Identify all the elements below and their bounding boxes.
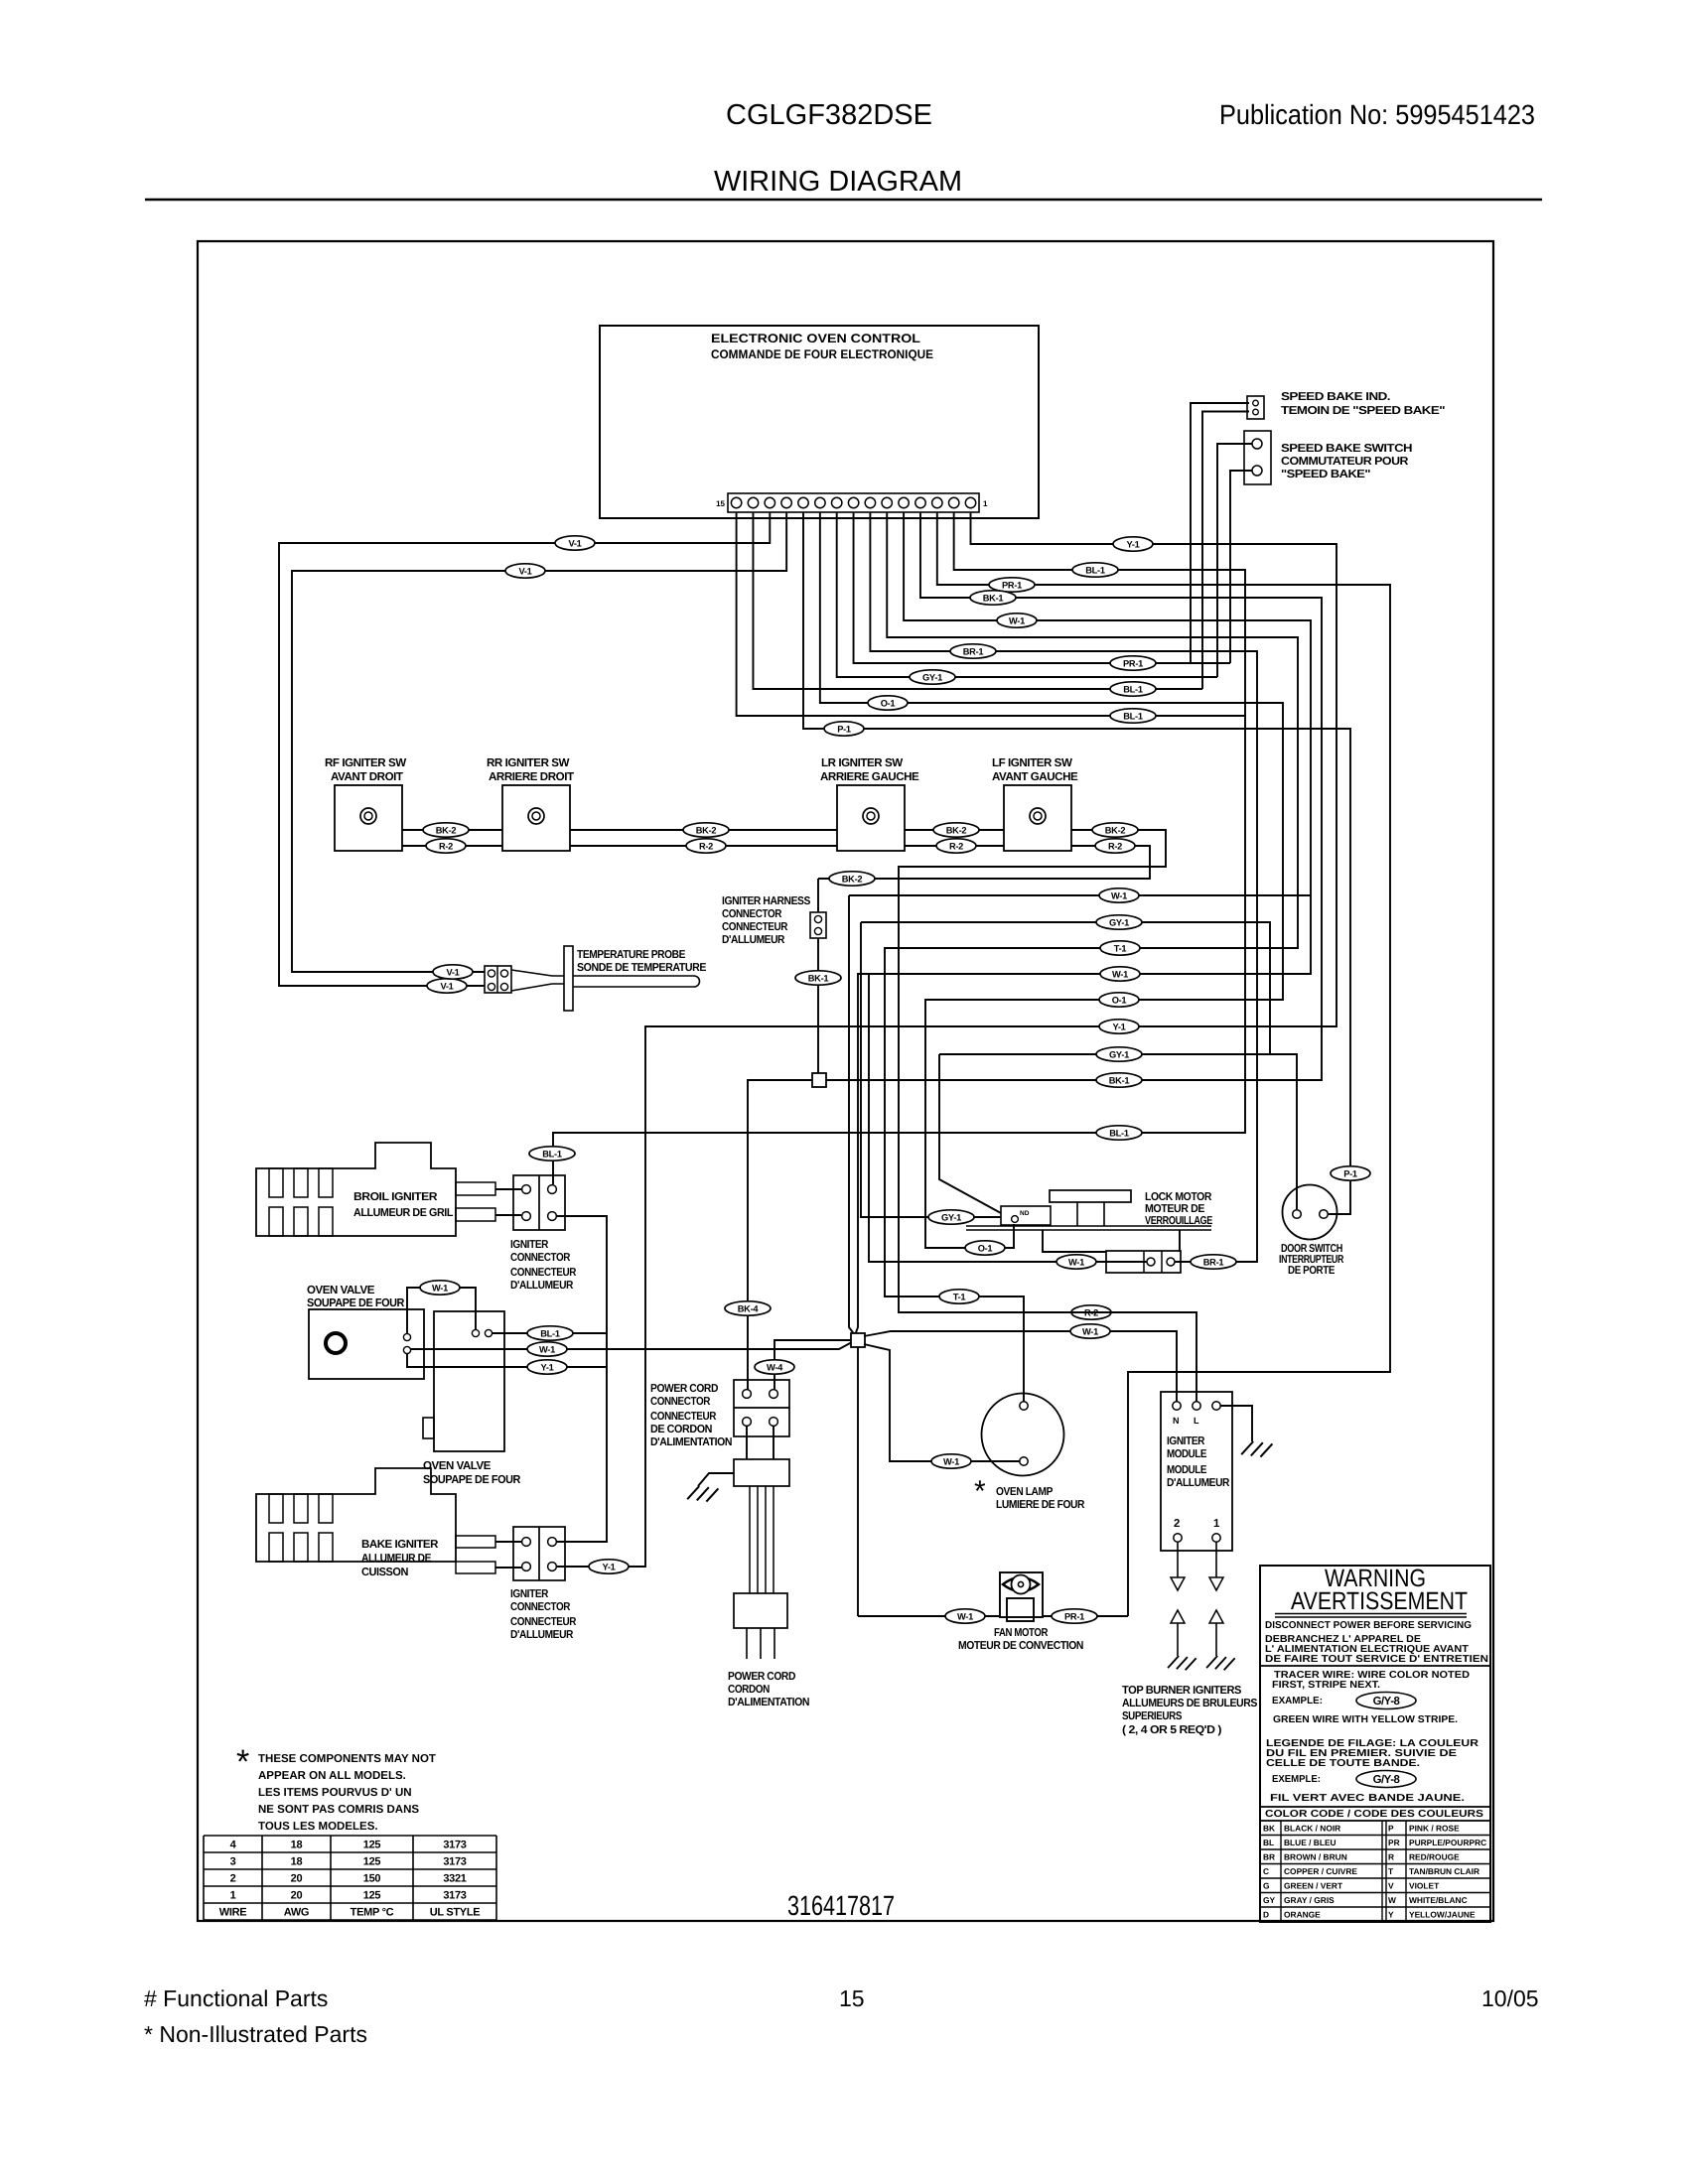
- wire label oval P-1: [824, 722, 864, 736]
- wire label oval W-1: [1056, 1255, 1096, 1269]
- bake igniter: [256, 1468, 456, 1562]
- svg-text:1: 1: [230, 1890, 236, 1902]
- power cord connector: [734, 1380, 789, 1436]
- top burner igniter output 1225: [1215, 1542, 1217, 1577]
- oven control connector strip P1-P15: [728, 493, 979, 512]
- svg-text:PR-1: PR-1: [1064, 1611, 1084, 1621]
- wire net BK-1 harness connector to node: [817, 879, 819, 1073]
- wire label oval BL-1: [529, 1147, 575, 1160]
- svg-text:V-1: V-1: [568, 538, 581, 548]
- svg-text:ALLUMEUR DE GRIL: ALLUMEUR DE GRIL: [353, 1207, 453, 1219]
- wire label oval BK-2: [683, 823, 729, 837]
- svg-text:CUISSON: CUISSON: [361, 1567, 408, 1578]
- wire net R-2 igniter row: [402, 846, 1150, 879]
- wire igniter module aux to ground: [1220, 1406, 1252, 1441]
- wire net O-1 pin10 to lock motor: [820, 512, 1283, 1248]
- svg-text:P-1: P-1: [1343, 1168, 1357, 1178]
- wire label oval Y-1: [1113, 537, 1153, 551]
- svg-text:MOTEUR DE CONVECTION: MOTEUR DE CONVECTION: [958, 1640, 1083, 1652]
- svg-text:FIRST, STRIPE NEXT.: FIRST, STRIPE NEXT.: [1272, 1680, 1380, 1691]
- wire label oval BK-1: [970, 591, 1016, 605]
- svg-text:R: R: [1388, 1852, 1394, 1862]
- svg-text:DE CORDON: DE CORDON: [650, 1424, 712, 1435]
- svg-text:18: 18: [291, 1856, 303, 1868]
- svg-text:W-1: W-1: [1112, 969, 1128, 979]
- svg-text:D'ALLUMEUR: D'ALLUMEUR: [510, 1280, 573, 1292]
- junction node splice 2: [851, 1333, 865, 1347]
- svg-text:Y: Y: [1388, 1910, 1394, 1920]
- wire net W-1 valve to node: [411, 1342, 852, 1349]
- wire label oval O-1: [868, 696, 908, 710]
- G/Y-8 example oval 2: [1356, 1771, 1416, 1788]
- svg-text:3: 3: [230, 1856, 236, 1868]
- temperature probe: [511, 970, 552, 991]
- svg-text:D: D: [1263, 1910, 1269, 1920]
- svg-text:W-1: W-1: [1068, 1257, 1084, 1267]
- svg-text:WIRING DIAGRAM: WIRING DIAGRAM: [714, 166, 962, 198]
- svg-text:*: *: [236, 1743, 249, 1781]
- svg-text:CONNECTEUR: CONNECTEUR: [650, 1411, 716, 1423]
- wire label oval T-1: [939, 1290, 979, 1303]
- wire label oval Y-1: [589, 1560, 629, 1573]
- svg-text:BL-1: BL-1: [1085, 565, 1105, 575]
- junction node splice 1: [812, 1073, 826, 1087]
- igniter module: [1161, 1392, 1232, 1551]
- svg-text:Publication No: 5995451423: Publication No: 5995451423: [1219, 99, 1535, 130]
- wire net W-1 node to fan motor: [857, 1347, 859, 1616]
- svg-text:1: 1: [983, 499, 988, 508]
- svg-text:LES ITEMS POURVUS D' UN: LES ITEMS POURVUS D' UN: [258, 1787, 412, 1799]
- svg-text:IGNITER HARNESS: IGNITER HARNESS: [722, 895, 811, 907]
- svg-text:W-1: W-1: [432, 1283, 448, 1293]
- lock motor switch: [1106, 1251, 1181, 1273]
- svg-text:GY-1: GY-1: [1109, 917, 1129, 927]
- svg-text:R-2: R-2: [699, 841, 713, 851]
- electronic oven control box U1: [600, 326, 1039, 518]
- svg-text:O-1: O-1: [881, 698, 896, 708]
- wire label oval R-2: [936, 839, 976, 853]
- svg-text:2: 2: [1174, 1518, 1180, 1530]
- svg-text:R-2: R-2: [439, 841, 453, 851]
- svg-text:W-1: W-1: [1082, 1326, 1098, 1336]
- svg-text:ORANGE: ORANGE: [1284, 1910, 1321, 1920]
- bake igniter leads: [456, 1536, 495, 1548]
- wire net PR-1 pin8 to speed bake ind: [854, 512, 1230, 663]
- svg-text:RED/ROUGE: RED/ROUGE: [1409, 1852, 1460, 1862]
- svg-text:R-2: R-2: [1108, 841, 1122, 851]
- svg-text:W-1: W-1: [1111, 890, 1127, 900]
- pin 11: [798, 497, 808, 507]
- wire net BL-1 pin15 branch: [737, 512, 1245, 716]
- wire net V-1 pin13 to temperature probe: [279, 512, 770, 986]
- svg-text:IGNITER: IGNITER: [510, 1588, 548, 1600]
- svg-text:"SPEED BAKE": "SPEED BAKE": [1281, 469, 1370, 480]
- wire net BK-1 pin4 to node to power cord: [748, 512, 1322, 1394]
- strain relief block: [734, 1459, 789, 1486]
- svg-text:BL-1: BL-1: [540, 1328, 560, 1338]
- wire net V-1 pin12 to temperature probe: [292, 512, 786, 972]
- svg-text:BAKE IGNITER: BAKE IGNITER: [361, 1539, 438, 1551]
- svg-text:CELLE DE TOUTE BANDE.: CELLE DE TOUTE BANDE.: [1266, 1758, 1420, 1769]
- svg-text:GREEN WIRE WITH YELLOW STR: GREEN WIRE WITH YELLOW STRIPE.: [1273, 1714, 1458, 1725]
- svg-text:CONNECTOR: CONNECTOR: [510, 1601, 570, 1613]
- svg-text:RR IGNITER SW: RR IGNITER SW: [487, 756, 570, 769]
- svg-text:PR-1: PR-1: [1002, 580, 1022, 590]
- svg-text:BK-2: BK-2: [696, 825, 717, 835]
- svg-text:GY-1: GY-1: [941, 1212, 961, 1222]
- main border box: [198, 241, 1493, 1921]
- wire lock motor bracket: [1043, 1230, 1180, 1252]
- wire label oval BR-1: [950, 644, 996, 658]
- svg-text:D'ALLUMEUR: D'ALLUMEUR: [722, 934, 784, 946]
- svg-text:R-2: R-2: [949, 841, 963, 851]
- broil igniter connector: [513, 1175, 565, 1230]
- svg-text:D'ALLUMEUR: D'ALLUMEUR: [510, 1629, 573, 1641]
- wire label oval W-1: [1100, 967, 1140, 981]
- wire net GY-1 pin9 to speed bake switch: [837, 512, 1217, 677]
- svg-text:BL-1: BL-1: [1109, 1128, 1129, 1138]
- svg-text:AWG: AWG: [284, 1907, 309, 1919]
- svg-text:CONNECTEUR: CONNECTEUR: [510, 1616, 576, 1628]
- wire label oval GY-1: [1096, 915, 1142, 929]
- svg-text:L: L: [1194, 1416, 1199, 1426]
- svg-text:150: 150: [363, 1873, 381, 1885]
- svg-text:D'ALIMENTATION: D'ALIMENTATION: [650, 1436, 732, 1448]
- wire net BL-1 valve: [492, 1332, 607, 1334]
- svg-text:Y-1: Y-1: [540, 1362, 553, 1372]
- svg-text:125: 125: [363, 1840, 381, 1851]
- svg-text:TEMP °C: TEMP °C: [351, 1907, 394, 1919]
- wire net W-1 valve link: [407, 1288, 476, 1333]
- wire label oval BK-1: [795, 971, 841, 985]
- svg-text:W-1: W-1: [1009, 615, 1025, 625]
- svg-text:3173: 3173: [443, 1856, 466, 1868]
- svg-text:CONNECTOR: CONNECTOR: [650, 1396, 710, 1408]
- ground symbol power cord: [687, 1486, 718, 1502]
- svg-text:PR-1: PR-1: [1123, 658, 1143, 668]
- wire label oval BK-4: [725, 1301, 771, 1315]
- svg-text:GY-1: GY-1: [922, 672, 942, 682]
- svg-text:V: V: [1388, 1881, 1394, 1891]
- svg-text:UL STYLE: UL STYLE: [430, 1907, 481, 1919]
- svg-text:TEMPERATURE PROBE: TEMPERATURE PROBE: [577, 949, 686, 961]
- svg-text:BK-2: BK-2: [436, 825, 457, 835]
- wire label oval GY-1: [928, 1210, 974, 1224]
- wire net W-1 node to igniter module N: [864, 1331, 1177, 1402]
- wire label oval V-1: [433, 965, 473, 979]
- wire net P-1 pin11 to door switch: [803, 512, 1350, 1214]
- wire net BL-1 pin2 rail: [553, 512, 1245, 1184]
- oven valve solenoid: [434, 1311, 504, 1451]
- wire label oval GY-1: [1096, 1047, 1142, 1061]
- svg-text:PURPLE/POURPRC: PURPLE/POURPRC: [1409, 1838, 1486, 1847]
- svg-text:AVANT DROIT: AVANT DROIT: [331, 770, 403, 783]
- wire label oval R-2: [686, 839, 726, 853]
- svg-text:BK-2: BK-2: [842, 874, 863, 884]
- svg-text:POWER CORD: POWER CORD: [650, 1383, 718, 1395]
- svg-text:COMMUTATEUR POUR: COMMUTATEUR POUR: [1281, 456, 1408, 468]
- svg-text:APPEAR ON ALL MODELS.: APPEAR ON ALL MODELS.: [258, 1770, 406, 1782]
- speed bake indicator: [1247, 396, 1264, 419]
- svg-text:BK-1: BK-1: [983, 593, 1004, 603]
- svg-text:316417817: 316417817: [787, 1890, 895, 1921]
- svg-text:10/05: 10/05: [1481, 1985, 1539, 2011]
- svg-text:3173: 3173: [443, 1890, 466, 1902]
- svg-text:VERROUILLAGE: VERROUILLAGE: [1145, 1215, 1213, 1227]
- svg-text:18: 18: [291, 1840, 303, 1851]
- wire net W-1 upper branch: [849, 894, 1311, 896]
- svg-text:W-4: W-4: [767, 1362, 783, 1372]
- wire label oval BK-2: [1092, 823, 1138, 837]
- power cord plug: [734, 1593, 787, 1628]
- svg-text:DE FAIRE TOUT SERVICE D': DE FAIRE TOUT SERVICE D' ENTRETIEN: [1265, 1654, 1488, 1665]
- svg-text:Y-1: Y-1: [1112, 1022, 1125, 1031]
- wire speed bake switch top rail: [1217, 444, 1252, 677]
- wire label oval BK-2: [423, 823, 469, 837]
- wire net BL-1 broil connector to oven valve rail: [557, 1216, 607, 1542]
- svg-text:P: P: [1388, 1824, 1394, 1834]
- pin 7: [865, 497, 875, 507]
- svg-text:SUPERIEURS: SUPERIEURS: [1122, 1710, 1183, 1722]
- svg-text:BROWN / BRUN: BROWN / BRUN: [1284, 1852, 1347, 1862]
- svg-text:IGNITER: IGNITER: [1167, 1435, 1204, 1447]
- svg-text:MODULE: MODULE: [1167, 1448, 1207, 1460]
- wire label oval V-1: [555, 536, 595, 550]
- wire net R-2 to igniter module L: [899, 1311, 1196, 1313]
- wire label oval BL-1: [527, 1326, 573, 1340]
- svg-text:COMMANDE DE FOUR ELECTRONIQ: COMMANDE DE FOUR ELECTRONIQUE: [711, 347, 933, 361]
- wire net GY-1 to door switch: [939, 1054, 1297, 1209]
- svg-text:ARRIERE DROIT: ARRIERE DROIT: [489, 770, 574, 783]
- wire bake leads to connector: [495, 1542, 521, 1568]
- svg-text:125: 125: [363, 1890, 381, 1902]
- temperature probe connector: [485, 966, 511, 993]
- svg-text:COLOR CODE / CODE DES C: COLOR CODE / CODE DES COULEURS: [1265, 1809, 1483, 1820]
- top burner igniter output 1186: [1177, 1542, 1179, 1577]
- svg-text:G/Y-8: G/Y-8: [1373, 1696, 1400, 1707]
- svg-text:ALLUMEUR DE: ALLUMEUR DE: [361, 1553, 432, 1565]
- svg-text:AVANT GAUCHE: AVANT GAUCHE: [992, 770, 1078, 783]
- wire net Y-1 valve: [407, 1354, 607, 1367]
- svg-text:W-1: W-1: [957, 1611, 973, 1621]
- svg-text:CORDON: CORDON: [728, 1684, 770, 1696]
- svg-text:WIRE: WIRE: [219, 1907, 247, 1919]
- svg-text:MOTEUR DE: MOTEUR DE: [1145, 1203, 1205, 1215]
- svg-text:( 2, 4 OR 5 REQ'D ): ( 2, 4 OR 5 REQ'D ): [1122, 1724, 1222, 1736]
- power cord wires: [750, 1486, 774, 1593]
- wire label oval Y-1: [527, 1360, 567, 1374]
- wire label oval BL-1: [1096, 1126, 1142, 1140]
- svg-text:TEMOIN DE "SPEED BAKE": TEMOIN DE "SPEED BAKE": [1281, 405, 1445, 417]
- svg-text:YELLOW/JAUNE: YELLOW/JAUNE: [1409, 1910, 1476, 1920]
- svg-text:20: 20: [291, 1890, 303, 1902]
- svg-text:PR: PR: [1388, 1838, 1400, 1847]
- svg-text:O-1: O-1: [1112, 995, 1127, 1005]
- svg-text:TAN/BRUN CLAIR: TAN/BRUN CLAIR: [1409, 1866, 1479, 1876]
- svg-text:D'ALIMENTATION: D'ALIMENTATION: [728, 1697, 809, 1708]
- svg-text:15: 15: [839, 1985, 865, 2011]
- svg-text:WHITE/BLANC: WHITE/BLANC: [1409, 1895, 1468, 1905]
- wire label oval BL-1: [1072, 563, 1118, 577]
- warning box: [1260, 1566, 1490, 1922]
- wire label oval BR-1: [1191, 1255, 1236, 1269]
- wire net GY-1 to lock motor rail: [939, 1054, 1001, 1213]
- svg-text:COPPER / CUIVRE: COPPER / CUIVRE: [1284, 1866, 1357, 1876]
- wire net BK-2 igniter row: [402, 830, 1196, 1402]
- wire label oval R-2: [426, 839, 466, 853]
- svg-text:P-1: P-1: [837, 724, 851, 734]
- svg-text:GY: GY: [1263, 1895, 1276, 1905]
- wire label oval W-1: [420, 1281, 460, 1295]
- pin 10: [815, 497, 825, 507]
- igniter harness connector: [810, 912, 826, 938]
- svg-text:* Non-Illustrated Parts: * Non-Illustrated Parts: [144, 2021, 367, 2047]
- svg-text:GY-1: GY-1: [1109, 1049, 1129, 1059]
- svg-text:3173: 3173: [443, 1840, 466, 1851]
- svg-text:N: N: [1173, 1416, 1180, 1426]
- svg-text:O-1: O-1: [978, 1243, 993, 1253]
- wire label oval PR-1: [1052, 1609, 1097, 1623]
- title underline: [145, 199, 1542, 201]
- svg-text:W: W: [1388, 1895, 1396, 1905]
- wire net W-1 upper branch rail: [849, 895, 855, 1335]
- svg-text:SPEED BAKE SWITCH: SPEED BAKE SWITCH: [1281, 443, 1412, 455]
- svg-text:W-1: W-1: [943, 1456, 959, 1466]
- svg-text:ND: ND: [1020, 1210, 1030, 1217]
- wire label oval W-1: [1070, 1324, 1110, 1338]
- wire net BR-1 pin7 to lock switch: [870, 512, 1257, 1262]
- svg-text:BR-1: BR-1: [1203, 1257, 1224, 1267]
- svg-text:LUMIERE DE FOUR: LUMIERE DE FOUR: [996, 1499, 1084, 1511]
- wire label oval BK-2: [829, 872, 875, 886]
- svg-text:G/Y-8: G/Y-8: [1373, 1774, 1400, 1786]
- svg-text:D'ALLUMEUR: D'ALLUMEUR: [1167, 1477, 1229, 1489]
- broil igniter leads: [456, 1182, 495, 1195]
- svg-text:BK-2: BK-2: [1105, 825, 1126, 835]
- wire label oval R-2: [1071, 1305, 1111, 1319]
- wire label oval W-1: [945, 1609, 985, 1623]
- svg-text:IGNITER: IGNITER: [510, 1239, 548, 1251]
- wire label oval T-1: [1100, 941, 1140, 955]
- svg-text:OVEN LAMP: OVEN LAMP: [996, 1486, 1054, 1498]
- wire label oval P-1: [1331, 1166, 1370, 1180]
- svg-text:SPEED BAKE IND.: SPEED BAKE IND.: [1281, 391, 1390, 403]
- svg-text:Y-1: Y-1: [602, 1562, 615, 1571]
- pin 4: [915, 497, 925, 507]
- svg-text:NE SONT PAS COMRIS DANS: NE SONT PAS COMRIS DANS: [258, 1804, 419, 1816]
- svg-text:C: C: [1263, 1866, 1269, 1876]
- svg-text:ARRIERE GAUCHE: ARRIERE GAUCHE: [820, 770, 919, 783]
- pin 14: [748, 497, 758, 507]
- wire label oval BL-1: [1110, 709, 1156, 723]
- pin 5: [899, 497, 909, 507]
- svg-text:BL: BL: [1263, 1838, 1274, 1847]
- svg-text:BK-1: BK-1: [808, 973, 829, 983]
- pin 15: [731, 497, 741, 507]
- wire label oval BK-1: [1096, 1073, 1142, 1087]
- svg-text:SOUPAPE DE FOUR: SOUPAPE DE FOUR: [423, 1473, 521, 1486]
- wire gauge table: [204, 1835, 496, 1837]
- svg-text:CONNECTOR: CONNECTOR: [722, 908, 781, 920]
- svg-text:20: 20: [291, 1873, 303, 1885]
- pin 9: [832, 497, 842, 507]
- wire label oval V-1: [505, 564, 545, 578]
- svg-text:SONDE DE TEMPERATURE: SONDE DE TEMPERATURE: [577, 962, 707, 974]
- svg-text:VIOLET: VIOLET: [1409, 1881, 1440, 1891]
- svg-text:ALLUMEURS DE BRULEURS: ALLUMEURS DE BRULEURS: [1122, 1698, 1258, 1709]
- wire label oval PR-1: [989, 578, 1035, 592]
- svg-text:2: 2: [230, 1873, 236, 1885]
- wire net BL-1 pin14 branch to speed bake: [753, 512, 1202, 689]
- G/Y-8 example oval 1: [1356, 1693, 1416, 1709]
- svg-text:FAN MOTOR: FAN MOTOR: [994, 1627, 1048, 1639]
- wire net GY-1 mid link: [861, 922, 1270, 1054]
- wire label oval PR-1: [1110, 656, 1156, 670]
- svg-text:THESE COMPONENTS MAY NOT: THESE COMPONENTS MAY NOT: [258, 1753, 436, 1765]
- wire label oval V-1: [427, 979, 467, 993]
- ground symbol igniter module: [1241, 1441, 1272, 1457]
- svg-text:LOCK MOTOR: LOCK MOTOR: [1145, 1191, 1211, 1203]
- bake igniter connector: [513, 1527, 565, 1580]
- svg-text:BLACK / NOIR: BLACK / NOIR: [1284, 1824, 1340, 1834]
- wire net W-1 node to oven lamp: [864, 1344, 1020, 1461]
- svg-text:PINK / ROSE: PINK / ROSE: [1409, 1824, 1460, 1834]
- svg-text:BL-1: BL-1: [1123, 711, 1143, 721]
- svg-text:LF IGNITER SW: LF IGNITER SW: [992, 756, 1072, 769]
- svg-text:BK-4: BK-4: [738, 1303, 760, 1313]
- svg-text:GREEN / VERT: GREEN / VERT: [1284, 1881, 1343, 1891]
- svg-text:3321: 3321: [443, 1873, 466, 1885]
- wire speed bake switch bottom rail: [1230, 471, 1252, 663]
- pin 2: [949, 497, 959, 507]
- wire strain relief ground lead: [698, 1473, 734, 1486]
- svg-text:RF IGNITER SW: RF IGNITER SW: [325, 756, 406, 769]
- oven lamp: [982, 1394, 1064, 1476]
- wire label oval BK-2: [933, 823, 979, 837]
- wire net W-1 to lock switch: [869, 974, 1147, 1262]
- svg-text:TOUS LES MODELES.: TOUS LES MODELES.: [258, 1821, 378, 1833]
- pin 13: [765, 497, 774, 507]
- wire net T-1 pin6 to oven lamp: [885, 512, 1298, 1402]
- svg-text:MODULE: MODULE: [1167, 1464, 1207, 1476]
- color code table: [1260, 1835, 1490, 1837]
- svg-text:T-1: T-1: [1114, 943, 1127, 953]
- svg-text:CONNECTEUR: CONNECTEUR: [722, 921, 787, 933]
- svg-text:V-1: V-1: [446, 967, 459, 977]
- fan motor: [1000, 1572, 1043, 1617]
- wire speed bake ind pin1 rail: [1191, 403, 1249, 663]
- speed bake switch: [1244, 431, 1271, 484]
- wire net Y-1 pin1 to bake igniter connector: [557, 512, 1336, 1567]
- wire label oval W-4: [755, 1360, 794, 1374]
- svg-text:BR: BR: [1263, 1852, 1275, 1862]
- wire label oval W-1: [997, 614, 1037, 627]
- pin 1: [965, 497, 975, 507]
- svg-text:POWER CORD: POWER CORD: [728, 1671, 795, 1683]
- svg-text:DE PORTE: DE PORTE: [1288, 1265, 1336, 1277]
- svg-text:FIL VERT AVEC BANDE JA: FIL VERT AVEC BANDE JAUNE.: [1270, 1793, 1465, 1804]
- wire label oval O-1: [965, 1241, 1005, 1255]
- svg-text:CONNECTEUR: CONNECTEUR: [510, 1267, 576, 1279]
- svg-text:SOUPAPE DE FOUR: SOUPAPE DE FOUR: [307, 1297, 405, 1309]
- wire net GY-1 mid rail: [861, 922, 1001, 1217]
- wire label oval GY-1: [910, 670, 955, 684]
- wire net W-1 fan motor line: [858, 1615, 1128, 1617]
- wire label oval W-1: [931, 1454, 971, 1468]
- svg-text:15: 15: [716, 499, 725, 508]
- svg-text:GRAY / GRIS: GRAY / GRIS: [1284, 1895, 1335, 1905]
- wire label oval Y-1: [1099, 1020, 1139, 1033]
